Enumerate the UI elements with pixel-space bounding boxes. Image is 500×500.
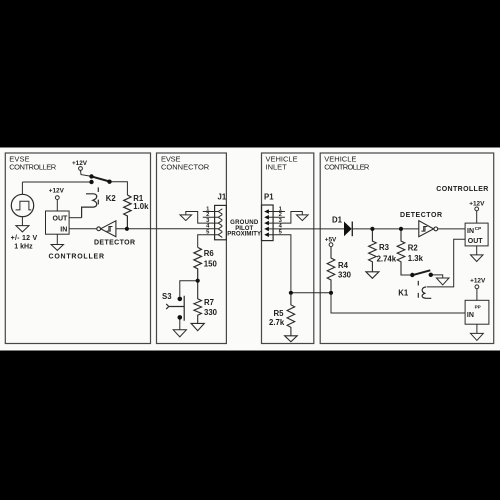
svg-text:PP: PP — [475, 304, 481, 309]
svg-text:PROXIMITY: PROXIMITY — [227, 231, 261, 238]
svg-text:OUT: OUT — [53, 216, 69, 223]
svg-text:150: 150 — [204, 259, 218, 268]
svg-text:+12V: +12V — [72, 160, 88, 167]
svg-text:+12V: +12V — [470, 278, 486, 285]
svg-text:OUT: OUT — [468, 238, 484, 245]
svg-text:330: 330 — [204, 308, 218, 317]
svg-text:+12V: +12V — [469, 200, 485, 207]
svg-text:1.0k: 1.0k — [133, 202, 149, 211]
svg-text:CONNECTOR: CONNECTOR — [161, 162, 210, 171]
svg-text:IN: IN — [467, 228, 474, 235]
svg-text:R7: R7 — [204, 298, 214, 307]
svg-text:S3: S3 — [162, 292, 172, 301]
svg-text:K1: K1 — [398, 288, 409, 297]
svg-text:2.7k: 2.7k — [269, 318, 285, 327]
svg-text:D1: D1 — [332, 216, 343, 225]
svg-text:+/- 12 V: +/- 12 V — [11, 235, 38, 242]
svg-text:J1: J1 — [218, 193, 227, 202]
svg-text:DETECTOR: DETECTOR — [400, 212, 442, 219]
svg-text:INLET: INLET — [266, 162, 288, 171]
svg-text:CP: CP — [475, 226, 481, 231]
svg-text:CONTROLLER: CONTROLLER — [49, 253, 105, 260]
svg-text:R5: R5 — [274, 309, 285, 318]
svg-text:R2: R2 — [408, 244, 419, 253]
svg-text:R6: R6 — [204, 249, 215, 258]
svg-text:+5V: +5V — [325, 237, 337, 244]
svg-text:P1: P1 — [264, 192, 274, 201]
svg-text:IN: IN — [60, 226, 67, 233]
svg-text:CONTROLLER: CONTROLLER — [436, 186, 488, 193]
svg-text:DETECTOR: DETECTOR — [94, 239, 135, 246]
svg-text:K2: K2 — [106, 194, 117, 203]
svg-text:CONTROLLER: CONTROLLER — [324, 162, 370, 171]
svg-text:CONTROLLER: CONTROLLER — [9, 162, 57, 171]
svg-text:IN: IN — [467, 312, 474, 319]
svg-text:330: 330 — [338, 271, 352, 280]
svg-text:R4: R4 — [338, 261, 349, 270]
svg-text:R3: R3 — [379, 243, 390, 252]
svg-text:+12V: +12V — [49, 188, 65, 195]
svg-text:1.3k: 1.3k — [408, 254, 424, 263]
svg-text:1 kHz: 1 kHz — [14, 243, 33, 250]
svg-text:2.74k: 2.74k — [377, 254, 397, 263]
